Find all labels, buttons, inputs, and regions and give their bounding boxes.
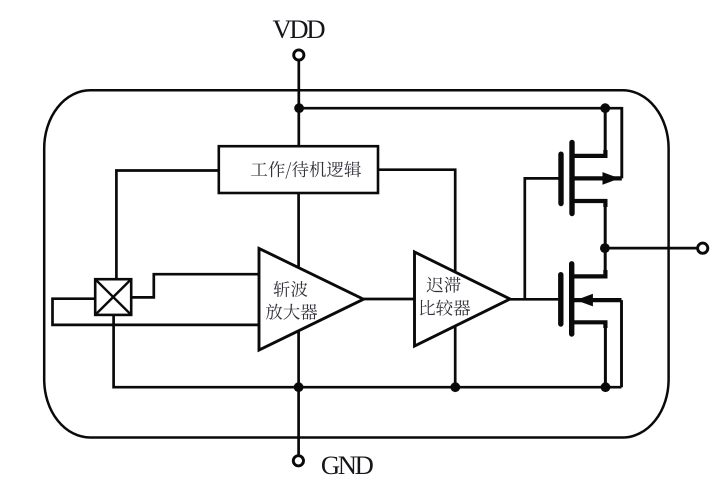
label: 斩波 xyxy=(274,281,308,297)
transistor Q1 PMOS channel bar xyxy=(569,143,574,214)
wire: comparator output to PMOS gate xyxy=(525,178,559,299)
wire: comparator output to NMOS gate xyxy=(510,298,558,301)
wire: logic box bottom to ground rail (through amplifier) xyxy=(297,193,300,387)
wire: PMOS source to VDD node xyxy=(604,108,607,152)
svg-text:VDD: VDD xyxy=(273,14,326,44)
transistor Q2 NMOS source lead xyxy=(573,322,605,328)
wire: PMOS bulk to VDD rail xyxy=(620,107,623,178)
transistor Q2 NMOS bulk arrow (points in = N-channel) xyxy=(576,294,593,307)
wire: Hall element left terminal to amplifier lower input xyxy=(53,299,260,325)
transistor Q2 NMOS drain lead xyxy=(573,270,605,276)
wire: VDD terminal to logic box top xyxy=(297,61,300,147)
wire: logic box to chopper switch control xyxy=(116,171,218,281)
wire: NMOS source to ground rail xyxy=(604,326,607,387)
transistor Q1 PMOS gate bar xyxy=(558,154,563,203)
IC boundary rounded rectangle xyxy=(44,90,668,437)
transistor Q2 NMOS channel bar xyxy=(569,264,574,334)
node: output junction xyxy=(600,243,610,253)
label: 迟滞 xyxy=(427,277,461,293)
wire: amplifier output to comparator input xyxy=(364,298,415,301)
transistor Q1 PMOS source lead xyxy=(574,150,606,156)
node: NMOS source junction xyxy=(601,382,611,392)
label: 工作/待机逻辑 xyxy=(251,161,361,179)
node: VDD junction xyxy=(294,103,304,113)
transistor Q1 PMOS bulk arrow (points out = P-channel) xyxy=(603,172,620,185)
wire: logic box right to ground rail (through comparator) xyxy=(378,170,455,388)
wire: NMOS drain to output node xyxy=(604,248,607,272)
wire: PMOS drain to output node xyxy=(604,205,607,248)
wire: VDD rail to output transistors xyxy=(299,107,622,110)
VDD terminal xyxy=(294,50,304,60)
wire: Hall element right terminal to amplifier upper input xyxy=(131,274,259,297)
comparator U3 迟滞比较器 (hysteresis comparator) triangle xyxy=(415,252,511,346)
node: GND junction xyxy=(294,382,304,392)
node: comparator leg junction xyxy=(450,382,460,392)
label: 放大器 xyxy=(266,304,317,320)
logic block U1 工作/待机逻辑 (work/standby logic) xyxy=(219,146,378,193)
label: 比较器 xyxy=(420,300,470,316)
transistor Q1 PMOS drain lead xyxy=(574,201,606,207)
wire: NMOS bulk to ground rail xyxy=(620,300,623,387)
wire: ground rail to GND terminal xyxy=(297,387,300,456)
transistor Q2 NMOS gate bar xyxy=(558,275,563,324)
node: PMOS source junction on VDD rail xyxy=(600,103,610,113)
wire: output node to output terminal xyxy=(605,247,698,250)
transistor Q1 PMOS bulk lead xyxy=(574,176,622,180)
output terminal xyxy=(698,243,708,253)
svg-text:GND: GND xyxy=(321,450,374,480)
op-amp U2 斩波放大器 (chopper amplifier) triangle xyxy=(259,248,364,350)
wire: ground rail xyxy=(114,315,622,387)
transistor Q2 NMOS bulk lead xyxy=(573,298,621,302)
Hall element / chopper switch (box with X) xyxy=(95,279,131,315)
GND terminal xyxy=(293,456,303,466)
